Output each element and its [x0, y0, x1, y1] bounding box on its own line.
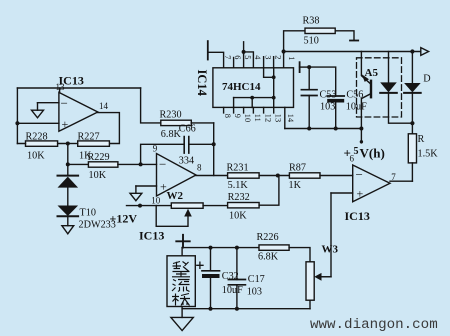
node: D anode junction	[410, 49, 414, 53]
arrow: W3 wiper head	[314, 273, 321, 281]
wire: internal jumper pin2 to pin13 column	[273, 68, 275, 108]
svg-text:103: 103	[320, 101, 335, 112]
svg-text:7: 7	[223, 55, 232, 59]
svg-text:2: 2	[273, 55, 282, 59]
svg-text:A5: A5	[365, 67, 379, 79]
resistor R87	[289, 173, 320, 178]
wire: rectifier bottom lead to ground	[181, 307, 183, 318]
svg-text:10uF: 10uF	[346, 101, 367, 112]
wire: U1 inverting input	[38, 102, 59, 104]
svg-text:T10: T10	[80, 207, 96, 218]
svg-text:3: 3	[263, 55, 272, 59]
LED D1 inside optocoupler	[388, 52, 390, 83]
rectifier bridge chinese label: zheng	[172, 262, 190, 306]
optocoupler dashed box	[357, 58, 402, 117]
resistor R226	[259, 245, 289, 250]
node: A5 collector to +5V bus	[359, 127, 363, 131]
wire: feedback line corner down to R230	[141, 88, 161, 123]
svg-text:1.5K: 1.5K	[418, 149, 439, 160]
node: R229 tap junction	[66, 162, 70, 166]
svg-text:10K: 10K	[229, 210, 247, 221]
svg-text:−: −	[61, 95, 68, 110]
wire: top node bus to C56	[309, 67, 336, 96]
wire: internal bus to pin 9	[234, 97, 274, 99]
capacitor at IC right edge	[299, 62, 301, 72]
wire: ground stub U2	[135, 186, 137, 193]
svg-text:1K: 1K	[289, 180, 302, 191]
ground (at U1 inverting input)	[32, 110, 44, 118]
svg-text:7: 7	[391, 172, 396, 182]
node: R231/R232/R87 junction	[276, 174, 280, 178]
rectifier bridge chinese label: liu	[172, 280, 190, 292]
pin 6 stub	[233, 58, 235, 68]
capacitor C17	[236, 248, 238, 280]
svg-text:C17: C17	[248, 274, 265, 285]
wire: U2 pin 9 inverting input	[141, 163, 157, 165]
svg-text:10: 10	[151, 196, 161, 206]
wire: bottom bus	[182, 308, 310, 310]
wire: internal verticals to bottom pins 9,11	[234, 98, 253, 108]
svg-text:11: 11	[253, 114, 262, 122]
svg-text:10K: 10K	[27, 151, 45, 162]
svg-text:510: 510	[304, 35, 319, 46]
node: C17 bottom	[235, 307, 239, 311]
svg-text:14: 14	[99, 101, 109, 111]
wire: R231 right lead	[259, 175, 289, 177]
rectifier bridge chinese label: qiao	[172, 294, 190, 306]
wire: rectifier + bus	[182, 247, 259, 249]
pin 5 stub with open stub up	[243, 42, 245, 68]
svg-text:D: D	[423, 74, 430, 85]
node: C53 bottom junction	[307, 127, 311, 131]
resistor R232	[228, 203, 260, 208]
capacitor C56 (electrolytic)	[327, 95, 344, 97]
wire: U2 non-inverting input	[136, 185, 157, 187]
svg-text:+: +	[62, 117, 69, 131]
node: C66 right junction	[212, 142, 216, 146]
node: C53 top junction	[307, 65, 311, 69]
svg-text:10K: 10K	[89, 170, 107, 181]
wire: U1 output pin 14	[98, 113, 120, 144]
ground (below T10)	[62, 226, 74, 234]
plus mark at C32	[197, 262, 203, 268]
wire: C66 right lead	[189, 143, 214, 145]
node: internal junction c	[250, 96, 254, 100]
wire: R227 left lead	[68, 143, 78, 145]
svg-text:R230: R230	[160, 110, 182, 121]
svg-text:+: +	[160, 179, 167, 193]
svg-text:www.diangon.com: www.diangon.com	[310, 317, 438, 333]
resistor R230	[161, 120, 192, 125]
svg-text:W2: W2	[167, 190, 184, 202]
svg-text:10uF: 10uF	[222, 285, 243, 296]
wire: +12V rail to pin 10 row	[127, 205, 172, 207]
node: internal junction a	[272, 75, 276, 79]
capacitor C32 (electrolytic)	[210, 248, 212, 271]
svg-text:1: 1	[287, 56, 296, 60]
node: pin 5 junction	[242, 50, 246, 54]
pin 1 stub	[283, 52, 285, 68]
node: pin 9 junction	[139, 162, 143, 166]
svg-text:IC14: IC14	[195, 70, 209, 97]
wire: R232 right lead up to junction	[259, 176, 279, 206]
wire: U2 output row	[196, 175, 228, 177]
op-amp U3 (IC13 right)	[353, 165, 390, 202]
pin 3 stub	[263, 57, 265, 68]
zener D1 of T10 (cathode up)	[58, 175, 79, 177]
bottom pin stubs 8,9,10,11,12,13	[224, 107, 274, 113]
wire: U3 + input down to W3 wiper	[321, 193, 332, 277]
node: C17 top	[235, 246, 239, 250]
ground (rectifier, large)	[171, 317, 193, 330]
wire: top bus from pin1 to output terminal	[284, 51, 421, 53]
svg-text:103: 103	[247, 286, 262, 297]
node: internal junction b	[272, 96, 276, 100]
svg-text:−: −	[159, 157, 166, 172]
wire: down to zener pair T10	[67, 144, 69, 176]
wire: U3 non-inverting input	[331, 192, 353, 194]
svg-text:10: 10	[243, 114, 252, 122]
svg-text:6: 6	[233, 55, 242, 59]
wire: pin 13 drop to op-amp U1	[59, 88, 61, 93]
pin 7 stub and terminal bar	[208, 52, 224, 68]
svg-text:R229: R229	[88, 152, 110, 163]
svg-text:5: 5	[354, 146, 359, 157]
resistor R229	[88, 162, 118, 167]
wire: R87 right lead to op-amp U3	[320, 175, 353, 177]
wire: C66 left lead and corner to pin 9 node	[141, 144, 185, 164]
svg-text:12: 12	[263, 114, 272, 122]
svg-text:IC13: IC13	[139, 229, 164, 243]
svg-text:C32: C32	[222, 271, 239, 282]
arrow: W2 wiper head	[184, 209, 192, 217]
resistor R 1.5K vertical	[411, 123, 413, 134]
svg-text:R231: R231	[227, 163, 249, 174]
zener D2 of T10 (cathode down)	[58, 206, 79, 217]
wire: rectifier top lead	[181, 248, 183, 256]
svg-text:+12V: +12V	[110, 211, 138, 225]
rectifier bridge box (zheng liu qiao)	[167, 256, 195, 307]
wire: W2 right lead to R232	[203, 205, 228, 207]
svg-text:W3: W3	[322, 244, 339, 256]
node: C32 bottom	[209, 307, 213, 311]
IC U4 74HC14 body	[213, 68, 294, 108]
wire: op-amp U1 non-inverting input	[17, 122, 59, 124]
svg-text:74HC14: 74HC14	[222, 81, 261, 93]
svg-text:4: 4	[253, 55, 262, 60]
ground (at U2 + input)	[130, 193, 142, 200]
wire: +5V(h) stub	[360, 129, 362, 143]
wire: left vertical rail	[16, 88, 18, 144]
wire: T10 to ground	[67, 216, 69, 226]
wire: VCC bus under IC	[285, 128, 362, 130]
node: C56 bottom junction	[334, 127, 338, 131]
svg-text:R87: R87	[289, 163, 306, 174]
wire: W3 bottom lead	[309, 300, 311, 309]
svg-text:R232: R232	[228, 192, 250, 203]
node: pin 10 junction	[138, 204, 142, 208]
arrow: A5 emitter arrowhead	[362, 74, 369, 82]
svg-text:C66: C66	[179, 124, 196, 135]
svg-text:14: 14	[286, 114, 295, 123]
potentiometer W3 body	[306, 262, 314, 300]
wire: R230 right lead	[191, 122, 213, 124]
svg-text:R38: R38	[303, 16, 320, 27]
wire: right vertical R230/C66 to U2 output node	[213, 123, 215, 176]
transistor A5 emitter wire	[361, 52, 371, 85]
svg-text:R228: R228	[26, 132, 48, 143]
svg-text:R226: R226	[257, 232, 279, 243]
terminal arrow top right	[421, 48, 429, 56]
pin 2 stub	[273, 57, 275, 68]
wire: U3 output pin 7	[390, 180, 412, 182]
svg-text:9: 9	[233, 114, 242, 118]
diode D	[411, 52, 413, 84]
svg-text:C56: C56	[346, 90, 363, 101]
resistor R38 with leads	[284, 31, 305, 52]
pin 14 stub down to VCC bus	[284, 107, 286, 128]
svg-text:−: −	[356, 167, 363, 182]
node: 13 junction between R228 and R227	[66, 142, 70, 146]
node: C32 top	[209, 246, 213, 250]
svg-text:8: 8	[197, 163, 202, 173]
wire: pin5-pin4 bridge	[244, 52, 254, 68]
wire: ground stub U1	[37, 103, 39, 111]
svg-text:6.8K: 6.8K	[258, 251, 279, 262]
svg-text:334: 334	[179, 155, 194, 166]
potentiometer W2 body	[171, 203, 203, 208]
node: U1 + input junction	[15, 121, 19, 125]
svg-text:9: 9	[153, 144, 158, 154]
wire: W2 wiper loop	[156, 206, 188, 227]
transistor A5 base bar	[370, 81, 372, 97]
svg-text:C53: C53	[320, 90, 337, 101]
svg-text:5.1K: 5.1K	[228, 180, 249, 191]
op-amp U1 (IC13 top-left)	[59, 92, 98, 131]
capacitor C53	[308, 67, 310, 90]
wire: R228 leads	[17, 143, 67, 145]
resistor R231	[228, 173, 260, 178]
wire: op-amp U1 feedback top line	[17, 87, 140, 89]
node: pin1/R38/bus junction	[282, 49, 286, 53]
wire: internal jumper to pin 3	[264, 68, 274, 78]
plus mark at rectifier output	[176, 235, 189, 248]
svg-text:6: 6	[350, 154, 355, 164]
node: diode/R junction	[410, 121, 414, 125]
svg-text:13: 13	[274, 114, 283, 122]
op-amp U2 (IC13 middle)	[157, 154, 197, 197]
svg-text:V(h): V(h)	[360, 146, 385, 161]
wire: R229 right lead to op-amp U2 pin 9 node	[118, 163, 141, 165]
svg-text:R: R	[418, 134, 425, 145]
wire: R226 right lead down to W3	[289, 248, 310, 262]
svg-text:+: +	[357, 187, 364, 201]
svg-text:8: 8	[223, 114, 232, 118]
wire: between zeners	[67, 188, 69, 206]
transistor A5 collector wire	[361, 94, 371, 129]
resistor R227	[78, 141, 110, 146]
svg-text:13: 13	[56, 82, 66, 92]
svg-text:IC13: IC13	[345, 209, 370, 223]
resistor R228	[26, 141, 58, 146]
capacitor C66 plates	[184, 137, 189, 154]
svg-text:5: 5	[243, 55, 252, 59]
wire: R229 left lead	[68, 163, 89, 165]
svg-text:R227: R227	[78, 132, 100, 143]
wire: W3 wiper stem	[321, 276, 332, 278]
